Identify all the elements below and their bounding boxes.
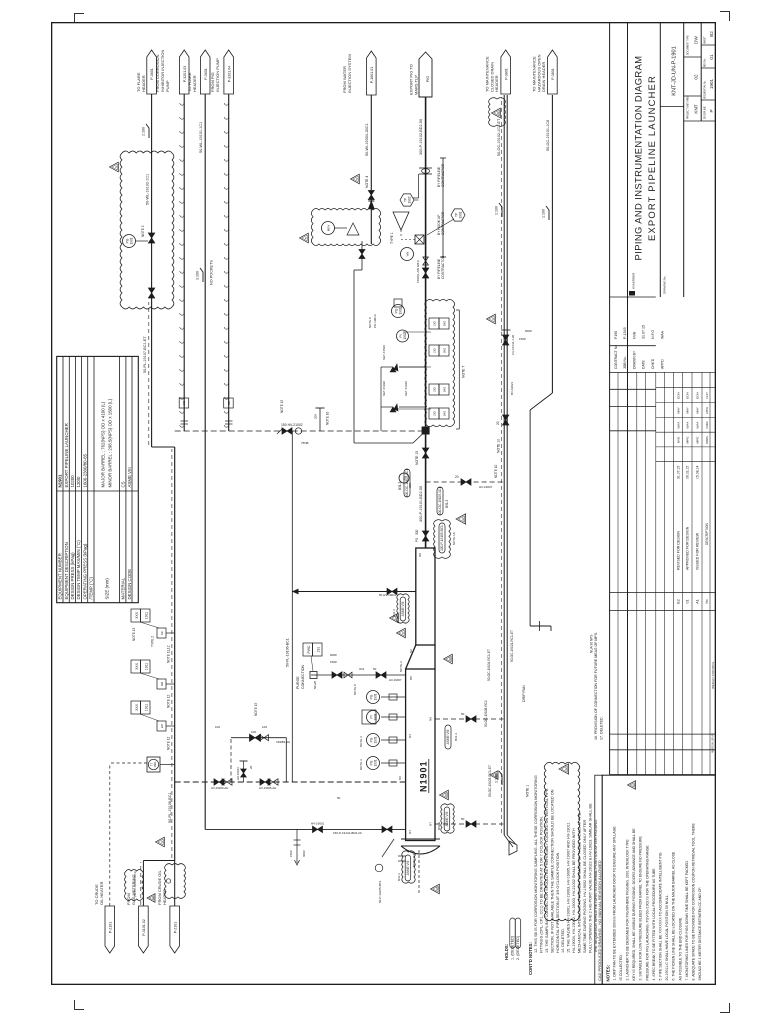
svg-text:N1: N1 <box>408 830 412 834</box>
svg-text:N5: N5 <box>409 676 413 680</box>
svg-text:300: 300 <box>415 529 419 535</box>
svg-text:CHKD: CHKD <box>705 421 709 428</box>
svg-text:1901: 1901 <box>443 410 447 416</box>
svg-text:SHOULD BE 1 METER DISTANCE BET: SHOULD BE 1 METER DISTANCE BETWEEN CC AN… <box>698 887 702 981</box>
svg-text:100: 100 <box>262 725 267 729</box>
svg-text:1901: 1901 <box>443 320 447 326</box>
svg-text:22: 22 <box>461 517 465 521</box>
svg-text:15. THE VALVES HV-19001, HV-1: 15. THE VALVES HV-19001, HV-19003, HV-19… <box>567 822 571 953</box>
svg-text:SIZE (mm): SIZE (mm) <box>105 578 110 600</box>
svg-text:NOTE 10: NOTE 10 <box>497 439 501 453</box>
svg-text:1901: 1901 <box>443 347 447 353</box>
svg-text:N.F.G: N.F.G <box>651 330 655 339</box>
svg-text:6. THE PICKEN LINE SHALL BE L: 6. THE PICKEN LINE SHALL BE LOCATED ON T… <box>672 851 676 981</box>
svg-text:JOB No.: JOB No. <box>623 356 627 369</box>
svg-text:BV-19021: BV-19021 <box>510 381 514 395</box>
svg-text:DRIP PAN: DRIP PAN <box>522 685 526 702</box>
svg-text:6: 6 <box>114 166 118 168</box>
svg-text:SET #1930: SET #1930 <box>382 381 386 396</box>
svg-text:1. DRIP PAN TO BE EXTENDED 30: 1. DRIP PAN TO BE EXTENDED 300mm FROM LA… <box>612 826 616 981</box>
svg-text:NVB: NVB <box>633 331 637 339</box>
svg-text:5: 5 <box>304 237 308 239</box>
svg-text:ZIO: ZIO <box>433 347 437 353</box>
svg-text:DOCUMENT TYPE: DOCUMENT TYPE <box>688 35 690 55</box>
svg-text:CONT'D NOTES:: CONT'D NOTES: <box>528 942 533 975</box>
svg-text:P-2101: P-2101 <box>108 922 112 934</box>
svg-text:2. LAUNCHER TO BE DESIGNED FO: 2. LAUNCHER TO BE DESIGNED FOR PIG/SPHER… <box>626 839 630 981</box>
svg-text:100: 100 <box>215 725 220 729</box>
svg-text:IS COLLECTED.: IS COLLECTED. <box>619 954 623 980</box>
svg-text:MATERIAL: MATERIAL <box>121 577 126 599</box>
svg-text:300-P-19102-BD2-50: 300-P-19102-BD2-50 <box>419 119 423 155</box>
svg-text:50x25: 50x25 <box>313 680 317 689</box>
svg-text:NOTE 12: NOTE 12 <box>167 736 171 750</box>
svg-text:EQUIPMENT DESCRIPTION: EQUIPMENT DESCRIPTION <box>64 542 69 599</box>
svg-text:600#: 600# <box>525 329 532 333</box>
svg-text:N1901: N1901 <box>419 760 429 792</box>
svg-text:ASME VIII: ASME VIII <box>401 602 405 617</box>
svg-text:ISSUED FOR REVIEW: ISSUED FOR REVIEW <box>695 532 699 570</box>
svg-text:APPROVED FOR DESIGN: APPROVED FOR DESIGN <box>686 526 690 570</box>
svg-text:N8: N8 <box>418 553 422 557</box>
svg-text:OIL HEATER: OIL HEATER <box>99 882 104 905</box>
svg-text:O01: O01 <box>359 667 365 671</box>
svg-text:WAA: WAA <box>661 330 665 339</box>
svg-text:120/0: 120/0 <box>76 476 81 488</box>
svg-text:14. DELETED.: 14. DELETED. <box>561 928 565 953</box>
svg-text:PS: PS <box>415 538 419 542</box>
svg-text:02: 02 <box>694 74 699 80</box>
svg-text:N1901: N1901 <box>58 474 63 487</box>
svg-text:1901: 1901 <box>459 211 463 218</box>
svg-text:NOTE 10: NOTE 10 <box>494 464 498 478</box>
svg-text:N6: N6 <box>398 776 402 780</box>
svg-text:50-WL-19102-1C1: 50-WL-19102-1C1 <box>146 174 150 205</box>
svg-text:1911: 1911 <box>144 612 148 619</box>
svg-text:HEADER: HEADER <box>192 75 197 92</box>
svg-text:GB: GB <box>160 682 164 686</box>
svg-text:DW: DW <box>694 36 699 44</box>
svg-text:P-3101.02: P-3101.02 <box>142 919 146 936</box>
svg-text:50-OC-19101-1C6: 50-OC-19101-1C6 <box>546 120 550 151</box>
svg-text:NOTE 18: NOTE 18 <box>452 532 456 545</box>
svg-text:31.07.15: 31.07.15 <box>676 466 680 479</box>
svg-text:MARS HL UP AS: MARS HL UP AS <box>711 733 715 753</box>
svg-text:50-OC-19103-RC1-ET: 50-OC-19103-RC1-ET <box>488 765 492 797</box>
svg-text:DESIGN CODE: DESIGN CODE <box>127 569 132 600</box>
svg-text:APPD: APPD <box>705 407 709 414</box>
svg-text:75NB: 75NB <box>301 441 309 445</box>
svg-text:CONTRACT No: CONTRACT No <box>614 345 618 369</box>
svg-text:EP: EP <box>160 724 164 728</box>
svg-text:P-3601: P-3601 <box>150 68 154 80</box>
svg-text:FITTINGS (CPL, CP1, CC1) TO BE: FITTINGS (CPL, CP1, CC1) TO BE ORIENTED … <box>539 816 543 953</box>
svg-text:300-P-19101-BD2-50: 300-P-19101-BD2-50 <box>419 486 423 522</box>
svg-text:MARS TLP: MARS TLP <box>414 75 419 95</box>
svg-text:50: 50 <box>373 667 377 671</box>
svg-text:MPG: MPG <box>686 436 690 444</box>
svg-text:1:100: 1:100 <box>542 209 546 218</box>
svg-text:150#: 150# <box>330 660 337 664</box>
svg-text:MAY: MAY <box>686 407 690 413</box>
svg-text:1931: 1931 <box>373 693 377 700</box>
svg-text:P-2101: P-2101 <box>173 922 177 934</box>
svg-text:MAY: MAY <box>695 407 699 413</box>
svg-text:TT: TT <box>149 763 153 767</box>
svg-text:APP'D: APP'D <box>661 359 665 369</box>
svg-text:HV-19001: HV-19001 <box>311 821 325 825</box>
svg-text:P-1601.01: P-1601.01 <box>370 67 374 84</box>
svg-text:PIPING AND INSTRUMENTATION DIA: PIPING AND INSTRUMENTATION DIAGRAM <box>633 56 644 261</box>
svg-text:DESIGN TEMP MAX/MIN (°C): DESIGN TEMP MAX/MIN (°C) <box>76 540 81 600</box>
svg-text:SECTION. IF NOT AVAILABLE THEN: SECTION. IF NOT AVAILABLE THEN THE SAMPL… <box>550 789 554 953</box>
svg-text:B2: B2 <box>709 31 714 37</box>
svg-text:9: 9 <box>151 897 155 899</box>
svg-text:DRWN: DRWN <box>705 436 709 444</box>
svg-text:P-3801: P-3801 <box>504 68 508 80</box>
svg-text:1:100: 1:100 <box>495 206 499 215</box>
svg-text:01: 01 <box>709 54 714 60</box>
svg-text:NOTE 7: NOTE 7 <box>462 366 466 378</box>
svg-text:SC: SC <box>227 400 231 405</box>
svg-text:NOTE 13: NOTE 13 <box>132 627 136 641</box>
svg-text:GOH: GOH <box>695 392 699 399</box>
svg-text:FULLY OPENING THE 2 HIG PORT V: FULLY OPENING THE 2 HIG PORT VALVE HV-19… <box>589 803 593 953</box>
svg-text:50: 50 <box>461 817 465 821</box>
svg-text:TYPE 1: TYPE 1 <box>390 232 394 244</box>
svg-text:KNT: KNT <box>694 104 699 113</box>
svg-text:1901: 1901 <box>709 78 714 89</box>
svg-text:NOTE 15: NOTE 15 <box>280 399 284 413</box>
svg-text:200: 200 <box>314 414 318 419</box>
svg-text:12. THIS SB IS FOR CORROSION: 12. THIS SB IS FOR CORROSION MONITORING … <box>534 775 538 953</box>
svg-text:1931: 1931 <box>373 759 377 766</box>
svg-text:NVB: NVB <box>676 437 680 443</box>
svg-text:TYPE 2: TYPE 2 <box>151 636 155 647</box>
svg-text:XXX: XXX <box>135 703 139 711</box>
svg-text:16. PROVISION OF CONNECTION F: 16. PROVISION OF CONNECTION FOR FUTURE M… <box>594 632 598 740</box>
svg-text:INJECTION SYSTEM: INJECTION SYSTEM <box>347 54 352 93</box>
svg-text:THE SEQUENCE WHILE RETURN TO N: THE SEQUENCE WHILE RETURN TO NORMAL POSI… <box>594 819 598 953</box>
svg-text:NOTE 2: NOTE 2 <box>141 225 145 237</box>
svg-text:SET #1910: SET #1910 <box>404 381 408 396</box>
svg-text:SET #1520: SET #1520 <box>382 345 386 360</box>
svg-text:MINOR BARREL : 298.5(NPS) OD x: MINOR BARREL : 298.5(NPS) OD x 1500 (L) <box>108 398 113 487</box>
svg-text:EQUIPMENT NUMBER: EQUIPMENT NUMBER <box>58 553 63 599</box>
svg-text:SC: SC <box>160 630 164 635</box>
svg-text:(50-PL-31206-BC1): (50-PL-31206-BC1) <box>133 871 137 897</box>
svg-text:HEADER: HEADER <box>141 75 146 92</box>
svg-text:ASME VIII: ASME VIII <box>446 730 450 745</box>
svg-text:150 HV-21002: 150 HV-21002 <box>281 423 303 427</box>
svg-text:20: 20 <box>455 475 459 479</box>
svg-text:1600-2300/80-65: 1600-2300/80-65 <box>82 453 87 487</box>
svg-text:50 HV-19011: 50 HV-19011 <box>379 593 397 597</box>
svg-text:PUMP: PUMP <box>165 80 170 92</box>
svg-text:KVAERNER: KVAERNER <box>632 272 636 289</box>
svg-text:NOTE 11,12: NOTE 11,12 <box>167 645 171 663</box>
svg-text:NOTE 12: NOTE 12 <box>167 694 171 708</box>
svg-text:GOH: GOH <box>676 392 680 399</box>
svg-text:5. PIPE SECTION SHALL BE XXXX: 5. PIPE SECTION SHALL BE XXXXXXX TO ACCO… <box>659 852 663 980</box>
svg-text:NOTE 15: NOTE 15 <box>254 702 258 716</box>
svg-text:F190: F190 <box>614 331 618 339</box>
svg-text:600#: 600# <box>302 850 306 857</box>
svg-text:150#: 150# <box>289 850 293 857</box>
svg-text:NOTE 8: NOTE 8 <box>353 684 357 695</box>
svg-text:REV No.: REV No. <box>705 58 707 67</box>
svg-text:15.08.14: 15.08.14 <box>695 466 699 479</box>
svg-text:9: 9 <box>491 318 495 320</box>
svg-text:B31.3: B31.3 <box>397 873 401 881</box>
svg-text:1600(1-AW GB1): 1600(1-AW GB1) <box>416 260 420 283</box>
svg-text:CONTRACTOR: CONTRACTOR <box>441 163 445 187</box>
svg-text:20: 20 <box>249 765 253 769</box>
svg-text:PG 1901A: PG 1901A <box>373 314 377 328</box>
svg-text:1901: 1901 <box>129 237 133 244</box>
svg-text:OPERATING PRESS (kPag): OPERATING PRESS (kPag) <box>82 543 87 599</box>
svg-text:XXX: XXX <box>135 611 139 619</box>
svg-text:DRAWING No.: DRAWING No. <box>663 275 667 294</box>
svg-text:P-1545: P-1545 <box>623 327 627 339</box>
svg-text:DISCIPLINE: DISCIPLINE <box>705 106 707 119</box>
svg-text:HEADER: HEADER <box>494 75 499 92</box>
svg-text:WAA: WAA <box>686 421 690 429</box>
svg-text:KEY IS REQUIRED, SHALL BE VISI: KEY IS REQUIRED, SHALL BE VISIBLE DURING… <box>632 828 636 981</box>
svg-text:20: 20 <box>496 421 500 425</box>
svg-text:8: 8 <box>401 632 405 634</box>
svg-text:DRAWN BY: DRAWN BY <box>633 350 637 369</box>
svg-text:NOTE 3: NOTE 3 <box>359 736 363 747</box>
svg-text:NOTE 2: NOTE 2 <box>399 661 403 672</box>
svg-text:50: 50 <box>461 712 465 716</box>
svg-text:10: 10 <box>394 616 398 620</box>
svg-text:50-FL-19106-BC1: 50-FL-19106-BC1 <box>286 638 290 667</box>
svg-text:CONTRACTOR: CONTRACTOR <box>441 211 445 235</box>
svg-text:ASME VIII: ASME VIII <box>445 812 449 827</box>
svg-text:(X)-19141-J-20: (X)-19141-J-20 <box>511 334 515 355</box>
svg-text:50-OC-19104-RC1-ET: 50-OC-19104-RC1-ET <box>487 649 491 681</box>
svg-text:NOTE 15: NOTE 15 <box>415 451 419 465</box>
svg-text:1902: 1902 <box>403 332 407 339</box>
svg-text:21: 21 <box>496 111 500 115</box>
svg-text:SC: SC <box>182 400 186 405</box>
svg-text:MAY: MAY <box>676 407 680 413</box>
svg-text:50-WI-19304-1BC1: 50-WI-19304-1BC1 <box>365 123 369 156</box>
svg-text:AS POSSIBLE TO THE END CLOSURE: AS POSSIBLE TO THE END CLOSURE. <box>678 917 682 981</box>
svg-text:100: 100 <box>251 730 256 734</box>
svg-text:CLNT: CLNT <box>705 392 709 399</box>
svg-text:150-P-19141-BD2-20: 150-P-19141-BD2-20 <box>333 831 362 835</box>
svg-text:10200: 10200 <box>70 475 75 488</box>
svg-text:PIG: PIG <box>426 76 430 82</box>
svg-text:SAME TIME DURING PIGGING. HV-1: SAME TIME DURING PIGGING. HV-19002 SHALL… <box>583 820 587 953</box>
svg-text:N9: N9 <box>429 717 433 721</box>
svg-text:1902: 1902 <box>408 196 412 203</box>
svg-text:A1: A1 <box>695 599 699 603</box>
svg-text:MAJOR BARREL : 762(NPS) OD x 4: MAJOR BARREL : 762(NPS) OD x 4100 (L) <box>101 401 106 487</box>
svg-text:WAA: WAA <box>676 421 680 429</box>
svg-text:1931: 1931 <box>373 713 377 720</box>
svg-text:HA-19024: HA-19024 <box>236 767 240 780</box>
svg-text:5: 5 <box>355 178 359 180</box>
svg-text:DRAIN HEADER: DRAIN HEADER <box>541 62 546 92</box>
svg-text:50-PL-19106-BC1: 50-PL-19106-BC1 <box>168 792 172 823</box>
svg-text:20: 20 <box>444 793 448 797</box>
svg-text:P-3601: P-3601 <box>204 68 208 80</box>
svg-text:HV-19007: HV-19007 <box>479 485 493 489</box>
svg-text:4. SPEC BREAK TO BE FITTED WI: 4. SPEC BREAK TO BE FITTED WITH LOCAL PR… <box>652 867 656 980</box>
svg-text:INJECTION PUMP: INJECTION PUMP <box>215 58 220 92</box>
svg-text:31.07.15: 31.07.15 <box>642 325 646 339</box>
svg-text:20: 20 <box>448 657 452 661</box>
svg-text:WN: WN <box>406 252 410 257</box>
svg-text:B31.3: B31.3 <box>454 733 458 741</box>
svg-text:NO POCKETS: NO POCKETS <box>210 260 214 285</box>
svg-text:50-OC-19108-RC1: 50-OC-19108-RC1 <box>484 700 488 727</box>
svg-text:1901: 1901 <box>398 307 402 314</box>
svg-text:300: 300 <box>408 483 412 488</box>
svg-text:P-3201.04: P-3201.04 <box>227 66 231 83</box>
svg-text:HV-19004, HV-19002, HV-19003,: HV-19004, HV-19002, HV-19003, HV-21002 S… <box>572 828 576 953</box>
svg-text:50-OC-19102-1C1-ET: 50-OC-19102-1C1-ET <box>497 118 501 156</box>
svg-text:HV-19007: HV-19007 <box>389 678 402 682</box>
svg-text:PURGE: PURGE <box>296 676 300 689</box>
svg-text:WAA: WAA <box>695 421 699 429</box>
svg-text:N2: N2 <box>409 649 413 653</box>
svg-text:600#: 600# <box>330 653 337 657</box>
svg-text:EXPORT PIPELINE LAUNCHER: EXPORT PIPELINE LAUNCHER <box>64 423 69 487</box>
svg-text:HOLDS:: HOLDS: <box>504 944 509 960</box>
svg-text:NOTE 8: NOTE 8 <box>368 317 372 328</box>
svg-text:17. DELETED.: 17. DELETED. <box>600 716 604 740</box>
svg-text:3:100: 3:100 <box>196 271 200 280</box>
svg-text:9: 9 <box>160 841 164 843</box>
svg-text:DESCRIPTION: DESCRIPTION <box>705 523 709 545</box>
svg-text:FO: FO <box>403 475 407 480</box>
svg-text:MPG: MPG <box>695 436 699 444</box>
svg-text:13. THE SAMPLING CONNECTION S: 13. THE SAMPLING CONNECTION SHOULD BE PR… <box>545 788 549 953</box>
svg-text:SHEET: SHEET <box>705 36 707 44</box>
svg-text:HORIZONTAL PIPE SECTION AT 3/9: HORIZONTAL PIPE SECTION AT 3/9 O'CLOCK P… <box>556 852 560 953</box>
svg-text:GOH: GOH <box>686 392 690 399</box>
svg-text:CHK'D: CHK'D <box>651 358 655 369</box>
svg-text:01: 01 <box>686 600 690 604</box>
svg-text:/TEMP (°C): /TEMP (°C) <box>89 577 94 600</box>
svg-text:SEQUENTIAL No.: SEQUENTIAL No. <box>704 80 707 99</box>
svg-text:DATE: DATE <box>642 359 646 369</box>
svg-text:191: 191 <box>316 647 320 653</box>
svg-text:50-P-19105-BC1: 50-P-19105-BC1 <box>378 880 382 903</box>
svg-text:ASME VIII: ASME VIII <box>127 467 132 487</box>
svg-text:8. ADEQUATE SPACE TO BE PROVI: 8. ADEQUATE SPACE TO BE PROVIDED FOR COR… <box>692 823 696 981</box>
svg-text:NOTE 16: NOTE 16 <box>326 411 330 425</box>
svg-text:B2: B2 <box>676 599 680 603</box>
svg-text:1:100: 1:100 <box>495 774 499 783</box>
svg-text:NOTE 3: NOTE 3 <box>359 759 363 770</box>
svg-text:50-WL-19101-1C1: 50-WL-19101-1C1 <box>199 122 203 153</box>
svg-text:1931: 1931 <box>373 736 377 743</box>
svg-text:PWC: PWC <box>307 645 311 653</box>
svg-text:50-PL-19107-BC1-ET: 50-PL-19107-BC1-ET <box>143 336 147 373</box>
svg-text:PRESSURE FOR PIG LAUNCHING. PS: PRESSURE FOR PIG LAUNCHING. PSV-50-/1902… <box>645 845 649 981</box>
svg-text:150#: 150# <box>519 337 526 341</box>
svg-text:MOV: MOV <box>327 225 331 232</box>
svg-text:ASME VIII: ASME VIII <box>406 861 410 876</box>
svg-text:XXX: XXX <box>135 662 139 670</box>
svg-text:N7: N7 <box>429 822 433 826</box>
svg-text:NOTE 4: NOTE 4 <box>365 176 369 188</box>
svg-text:100-OC-19105-1C1: 100-OC-19105-1C1 <box>438 487 442 515</box>
svg-text:NOTE 1: NOTE 1 <box>526 785 530 797</box>
svg-text:1901: 1901 <box>153 761 157 767</box>
svg-text:CS: CS <box>121 481 126 487</box>
svg-text:100-P-19105-BC1: 100-P-19105-BC1 <box>440 525 444 551</box>
svg-text:8: 8 <box>631 784 635 786</box>
svg-text:HV-19005-AH: HV-19005-AH <box>259 786 276 790</box>
svg-text:50: 50 <box>337 796 341 800</box>
svg-text:06.02.15: 06.02.15 <box>686 466 690 479</box>
svg-text:3. SUITABLE FOR LOW PRESSURE: 3. SUITABLE FOR LOW PRESSURE BLEED FROM … <box>639 835 643 980</box>
svg-text:20-19011-C SHALL HAVE LOCAL PO: 20-19011-C SHALL HAVE LOCAL POSITION 50 … <box>665 894 669 980</box>
svg-text:19: 19 <box>435 887 439 891</box>
svg-text:XDDB1-AH: XDDB1-AH <box>276 740 290 744</box>
svg-text:50-OC-19101-RC1-ET: 50-OC-19101-RC1-ET <box>510 630 514 662</box>
svg-text:1:160: 1:160 <box>142 127 146 136</box>
svg-text:B31.3: B31.3 <box>445 499 449 508</box>
svg-text:EXPORT PIPELINE LAUNCHER: EXPORT PIPELINE LAUNCHER <box>646 75 657 241</box>
svg-text:1911: 1911 <box>144 663 148 670</box>
svg-text:1901: 1901 <box>443 386 447 392</box>
svg-text:PROJECT UNIT/AREA: PROJECT UNIT/AREA <box>687 95 690 119</box>
svg-text:N3: N3 <box>408 734 412 738</box>
svg-text:DESIGN PRESS (kPag): DESIGN PRESS (kPag) <box>70 552 75 600</box>
svg-text:NOTES:: NOTES: <box>606 964 611 981</box>
svg-text:No: No <box>705 599 709 603</box>
svg-text:HV-19003-AH: HV-19003-AH <box>211 786 228 790</box>
svg-text:1911: 1911 <box>144 704 148 711</box>
svg-text:REVISED FOR DESIGN: REVISED FOR DESIGN <box>676 530 680 570</box>
svg-text:P-3801: P-3801 <box>551 68 555 80</box>
svg-text:B31.3: B31.3 <box>437 822 441 830</box>
svg-text:P: P <box>709 109 714 112</box>
svg-text:ZIO: ZIO <box>433 386 437 392</box>
svg-text:CONNECTION: CONNECTION <box>301 664 305 689</box>
svg-text:ZIO: ZIO <box>433 320 437 326</box>
svg-text:KNT-JD-UN-P-1901: KNT-JD-UN-P-1901 <box>672 46 678 95</box>
svg-text:WEIGHT CONTROL: WEIGHT CONTROL <box>711 661 715 689</box>
svg-text:7. MONITORING LINES FOR PIGS: 7. MONITORING LINES FOR PIGS DOWN TIME S… <box>685 860 689 980</box>
svg-text:ZIO: ZIO <box>433 410 437 416</box>
svg-text:NUA 90 NPS: NUA 90 NPS <box>590 635 594 653</box>
svg-text:22: 22 <box>564 767 568 771</box>
svg-text:CONTRACTOR: CONTRACTOR <box>441 255 445 279</box>
